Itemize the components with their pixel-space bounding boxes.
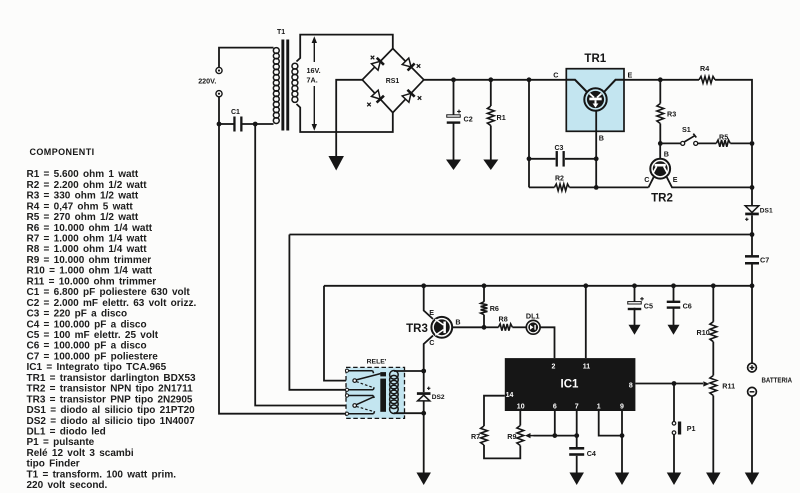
wire mains lower to C1 (217, 97, 234, 127)
label 220V (198, 76, 216, 85)
node junction dropper (527, 77, 532, 82)
diode RS1 top-left (371, 56, 384, 71)
transistor TR3 symbol (431, 317, 452, 338)
pin 7 label (575, 404, 579, 411)
svg-text:11: 11 (583, 363, 591, 370)
svg-text:DS1: DS1 (760, 208, 773, 215)
svg-text:RELE': RELE' (367, 359, 387, 366)
resistor R2 (529, 176, 569, 191)
node junction R1 (488, 77, 493, 82)
arrow into R9 (525, 433, 534, 438)
svg-text:C5: C5 (644, 302, 653, 311)
ground C4 (569, 473, 584, 486)
capacitor C6 (667, 283, 692, 325)
svg-text:DS2 = diodo al silicio tipo 1N: DS2 = diodo al silicio tipo 1N4007 (27, 416, 196, 427)
svg-text:T1: T1 (277, 29, 285, 36)
svg-text:E: E (673, 175, 678, 184)
svg-text:R5: R5 (719, 132, 728, 141)
transistor TR1 box (566, 69, 624, 132)
resistor R7 (471, 426, 487, 445)
ground bridge (328, 156, 344, 171)
relay coil (390, 371, 399, 414)
wire pin7 down (576, 411, 578, 449)
wire bus1 to C7 (751, 235, 753, 257)
svg-text:TR3: TR3 (406, 323, 428, 335)
node battery minus terminal (748, 387, 757, 396)
svg-text:BATTERIA: BATTERIA (762, 377, 793, 384)
svg-text:R11 = 10.000 ohm trimmer: R11 = 10.000 ohm trimmer (27, 276, 157, 287)
ground C5 (629, 325, 641, 335)
pin 11 label (583, 363, 591, 370)
resistor R8 (484, 314, 526, 330)
svg-text:6: 6 (553, 404, 557, 411)
svg-text:R10 = 1.000 ohm 1/4 watt: R10 = 1.000 ohm 1/4 watt (27, 266, 153, 277)
arrow into R11 (703, 381, 709, 386)
capacitor C2 (447, 80, 473, 160)
resistor R9 trimmer (507, 426, 523, 446)
pin 2 label (552, 363, 556, 370)
svg-text:10: 10 (517, 404, 525, 411)
wire mains upper to primary (219, 48, 274, 68)
resistor R5 (698, 132, 755, 146)
svg-text:R4 = 0,47 ohm 5 watt: R4 = 0,47 ohm 5 watt (27, 201, 134, 212)
node 220V terminal lower (216, 91, 222, 97)
label T1 (277, 29, 285, 36)
ground C6 (668, 325, 680, 335)
resistor R10 (697, 283, 717, 375)
bridge rectifier RS1 outline (362, 49, 424, 113)
svg-text:R1 = 5.600 ohm 1 watt: R1 = 5.600 ohm 1 watt (27, 169, 139, 180)
ground battery (745, 473, 760, 486)
svg-text:tipo Finder: tipo Finder (27, 459, 80, 470)
switch S1 (660, 125, 697, 145)
capacitor C1 (231, 109, 243, 132)
label 16V 7A (304, 62, 325, 86)
wire rail to DS1 (751, 143, 753, 205)
svg-text:TR2 = transistor NPN tipo 2N17: TR2 = transistor NPN tipo 2N1711 (27, 384, 194, 395)
svg-text:C2: C2 (464, 115, 473, 124)
svg-text:R2: R2 (555, 176, 564, 183)
svg-text:B: B (455, 318, 460, 327)
svg-text:R9: R9 (507, 432, 516, 441)
label TR3 (406, 323, 428, 335)
relay switch arm 2 (353, 397, 374, 412)
capacitor C7 (745, 255, 769, 264)
svg-text:R7: R7 (471, 432, 480, 441)
resistor R6 (481, 283, 499, 327)
svg-text:R6 = 10.000 ohm 1/4 watt: R6 = 10.000 ohm 1/4 watt (27, 223, 153, 234)
label TR1 C (553, 71, 558, 80)
pin 1 label (597, 404, 601, 411)
transformer T1 secondary winding (292, 63, 298, 102)
svg-text:R10: R10 (697, 328, 710, 337)
relay contact stub 3 (345, 394, 374, 398)
svg-text:S1: S1 (682, 125, 691, 134)
ground R1 (483, 160, 498, 171)
svg-text:8: 8 (629, 383, 633, 390)
wire mains drop to relay contact (219, 124, 346, 414)
transistor TR2 symbol (650, 159, 670, 179)
wire rail to R2 (527, 80, 532, 188)
svg-text:R7 = 1.000 ohm 1/4 watt: R7 = 1.000 ohm 1/4 watt (27, 234, 148, 245)
svg-text:C4 = 100.000 pF a disco: C4 = 100.000 pF a disco (27, 319, 147, 330)
transistor TR1 symbol (566, 80, 624, 111)
wire top rail left (424, 79, 567, 81)
resistor R4 (699, 64, 715, 83)
ground relay (416, 473, 431, 486)
svg-text:TR1: TR1 (584, 53, 606, 65)
svg-text:B: B (664, 150, 669, 159)
transformer T1 primary winding (273, 48, 279, 124)
diode RS1 top-right (402, 58, 420, 70)
node junction R3 (658, 77, 663, 82)
wire C3 left (529, 158, 555, 160)
svg-text:7: 7 (575, 404, 579, 411)
wire C7 to bus2 (750, 265, 755, 289)
capacitor C5 (628, 283, 653, 325)
relay armature (380, 372, 386, 412)
svg-text:C: C (553, 71, 558, 80)
wire bus2 left drop to relay pivot (324, 286, 353, 381)
pin 10 label (517, 404, 525, 411)
transformer T1 core (281, 40, 289, 131)
measure arrow 16V (312, 36, 317, 131)
op-amp IC1 body (505, 358, 636, 411)
wire DS2 to ground (423, 413, 425, 473)
wire bus2 (324, 285, 752, 287)
node junction TR2E rail (750, 185, 755, 190)
svg-text:DL1 = diodo led: DL1 = diodo led (27, 427, 106, 438)
wire R7 to R9 (484, 445, 520, 458)
wire bus1 left drop to relay (289, 235, 346, 390)
component list title COMPONENTI (30, 147, 95, 157)
pin 6 label (553, 404, 557, 411)
svg-text:16V.: 16V. (307, 66, 321, 75)
svg-text:C4: C4 (587, 449, 596, 458)
svg-text:R5 = 270 ohm 1/2 watt: R5 = 270 ohm 1/2 watt (27, 212, 139, 223)
diode DS2 (417, 371, 445, 413)
resistor R1 (487, 80, 505, 160)
diode RS1 bottom-left (367, 90, 384, 106)
svg-text:R3 = 330 ohm 1/2 watt: R3 = 330 ohm 1/2 watt (27, 191, 139, 202)
svg-text:R9 = 10.000 ohm trimmer: R9 = 10.000 ohm trimmer (27, 255, 152, 266)
node battery plus terminal (748, 363, 757, 372)
svg-text:E: E (429, 308, 434, 317)
wire pin9 to ground (621, 411, 623, 473)
svg-text:C6 = 100.000 pF a disco: C6 = 100.000 pF a disco (27, 341, 147, 352)
svg-text:B: B (599, 134, 604, 143)
label TR2 (651, 193, 673, 205)
resistor R3 (657, 80, 676, 146)
capacitor C3 (555, 145, 565, 167)
svg-text:C7 = 100.000 pF poliestere: C7 = 100.000 pF poliestere (27, 351, 159, 362)
svg-text:220V.: 220V. (198, 76, 216, 85)
node junction C2 (451, 77, 456, 82)
wire P1 to ground (673, 435, 675, 474)
svg-text:IC1: IC1 (561, 379, 580, 391)
svg-text:TR2: TR2 (651, 193, 673, 205)
svg-text:T1 = transform. 100 watt prim.: T1 = transform. 100 watt prim. (27, 469, 177, 480)
wire TR2 collector (644, 175, 653, 187)
svg-text:R8 = 1.000 ohm 1/4 watt: R8 = 1.000 ohm 1/4 watt (27, 244, 148, 255)
wire pin14 to R7 (484, 396, 505, 426)
svg-text:Relé 12 volt 3 scambi: Relé 12 volt 3 scambi (27, 448, 134, 459)
wire bus1 (289, 234, 752, 236)
svg-text:E: E (628, 71, 633, 80)
label TR1 (584, 53, 606, 65)
label BATTERIA (762, 377, 793, 384)
wire pin6 down (554, 411, 556, 436)
svg-text:C: C (429, 338, 434, 347)
svg-text:C1 = 6.800 pF poliestere 630 v: C1 = 6.800 pF poliestere 630 volt (27, 287, 191, 298)
svg-text:TR1 = transistor darlington BD: TR1 = transistor darlington BDX53 (27, 373, 197, 384)
pin 8 label (629, 383, 633, 390)
svg-text:R1: R1 (497, 113, 506, 122)
wire pin10 to R9 (519, 411, 521, 426)
svg-text:R6: R6 (490, 304, 499, 313)
svg-text:P1: P1 (687, 424, 696, 433)
wire R4 to right rail (715, 80, 752, 141)
svg-text:IC1 = Integrato tipo TCA.965: IC1 = Integrato tipo TCA.965 (27, 362, 167, 373)
ground C2 (446, 160, 461, 171)
relay contact stub 4 (345, 411, 374, 415)
wire TR2 emitter (667, 175, 752, 187)
svg-text:R4: R4 (700, 64, 709, 73)
wire mains drop to relay pivot2 (255, 124, 353, 406)
label TR1 E (628, 71, 633, 80)
svg-text:9: 9 (620, 404, 624, 411)
wire TR2 base (660, 143, 669, 158)
svg-text:14: 14 (506, 392, 514, 399)
svg-text:2: 2 (552, 363, 556, 370)
svg-text:C3 = 220 pF a disco: C3 = 220 pF a disco (27, 309, 128, 320)
node 220V terminal upper (216, 67, 222, 73)
led DL1 (526, 312, 540, 334)
svg-text:R11: R11 (722, 382, 735, 391)
relay switch arm 1 (353, 374, 380, 388)
wire C4 to ground (576, 456, 578, 473)
svg-text:C3: C3 (555, 145, 564, 152)
relay contact stub 1 (345, 369, 373, 373)
wire battery minus to ground (751, 396, 753, 473)
wire DS1 to bus1 (750, 215, 755, 237)
wire relay coil bottom to DS2 (394, 411, 426, 416)
wire secondary bottom to bridge (297, 104, 393, 132)
wire bus2 to IC1 pin11 (583, 283, 588, 358)
svg-text:C2 = 2.000 mF elettr. 63 volt: C2 = 2.000 mF elettr. 63 volt orizz. (27, 298, 197, 309)
wire C3 right (565, 156, 599, 161)
svg-text:C6: C6 (683, 302, 692, 311)
resistor R11 trimmer (710, 376, 735, 474)
svg-text:C: C (644, 175, 649, 184)
wire secondary top to bridge (297, 35, 393, 62)
svg-text:COMPONENTI: COMPONENTI (30, 147, 95, 157)
wire TR3 base (452, 318, 486, 330)
svg-text:C1: C1 (231, 109, 240, 116)
wire TR1 base (596, 111, 604, 188)
ground pin9 (615, 473, 630, 486)
wire top rail right (624, 79, 699, 81)
pin 14 label (506, 392, 514, 399)
relay box (346, 367, 405, 418)
svg-text:DS2: DS2 (432, 394, 445, 401)
relay contact stub 2 (345, 387, 374, 391)
wire bridge minus to ground (336, 80, 362, 159)
wire bus2 to battery plus (751, 286, 753, 363)
wire R9 arrow to pins 6 7 (534, 433, 580, 438)
wire pin8 (635, 381, 703, 386)
wire pin1 down (599, 411, 625, 438)
svg-text:R8: R8 (499, 314, 508, 323)
capacitor C4 (569, 447, 596, 458)
wire DL1 to IC1 pin2 (540, 327, 554, 358)
svg-text:R3: R3 (667, 110, 676, 119)
svg-text:R2 = 2.200 ohm 1/2 watt: R2 = 2.200 ohm 1/2 watt (27, 180, 148, 191)
component list text (27, 169, 197, 491)
wire relay coil top to DS2 (394, 369, 426, 374)
ground P1 (667, 473, 682, 486)
svg-text:RS1: RS1 (386, 78, 400, 85)
svg-text:1: 1 (597, 404, 601, 411)
svg-text:7A.: 7A. (307, 76, 318, 85)
ground R11 (706, 473, 721, 486)
diode RS1 bottom-right (402, 90, 421, 102)
wire C1 to primary (242, 122, 274, 127)
svg-text:DS1 = diodo al silicio tipo 21: DS1 = diodo al silicio tipo 21PT20 (27, 405, 196, 416)
pushbutton P1 (672, 384, 695, 435)
wire TR3 emitter (421, 283, 434, 319)
svg-text:TR3 = transistor PNP tipo 2N29: TR3 = transistor PNP tipo 2N2905 (27, 394, 193, 405)
diode DS1 (745, 206, 773, 221)
svg-text:P1 = pulsante: P1 = pulsante (27, 437, 95, 448)
svg-text:C5 = 100 mF elettr. 25 volt: C5 = 100 mF elettr. 25 volt (27, 330, 159, 341)
wire TR3 collector (424, 336, 435, 371)
pin 9 label (620, 404, 624, 411)
svg-text:C7: C7 (760, 256, 769, 265)
label RELE (367, 359, 387, 366)
svg-text:DL1: DL1 (526, 312, 540, 321)
wire R2 to TR2 C (569, 185, 648, 190)
svg-text:220 volt second.: 220 volt second. (27, 480, 108, 491)
